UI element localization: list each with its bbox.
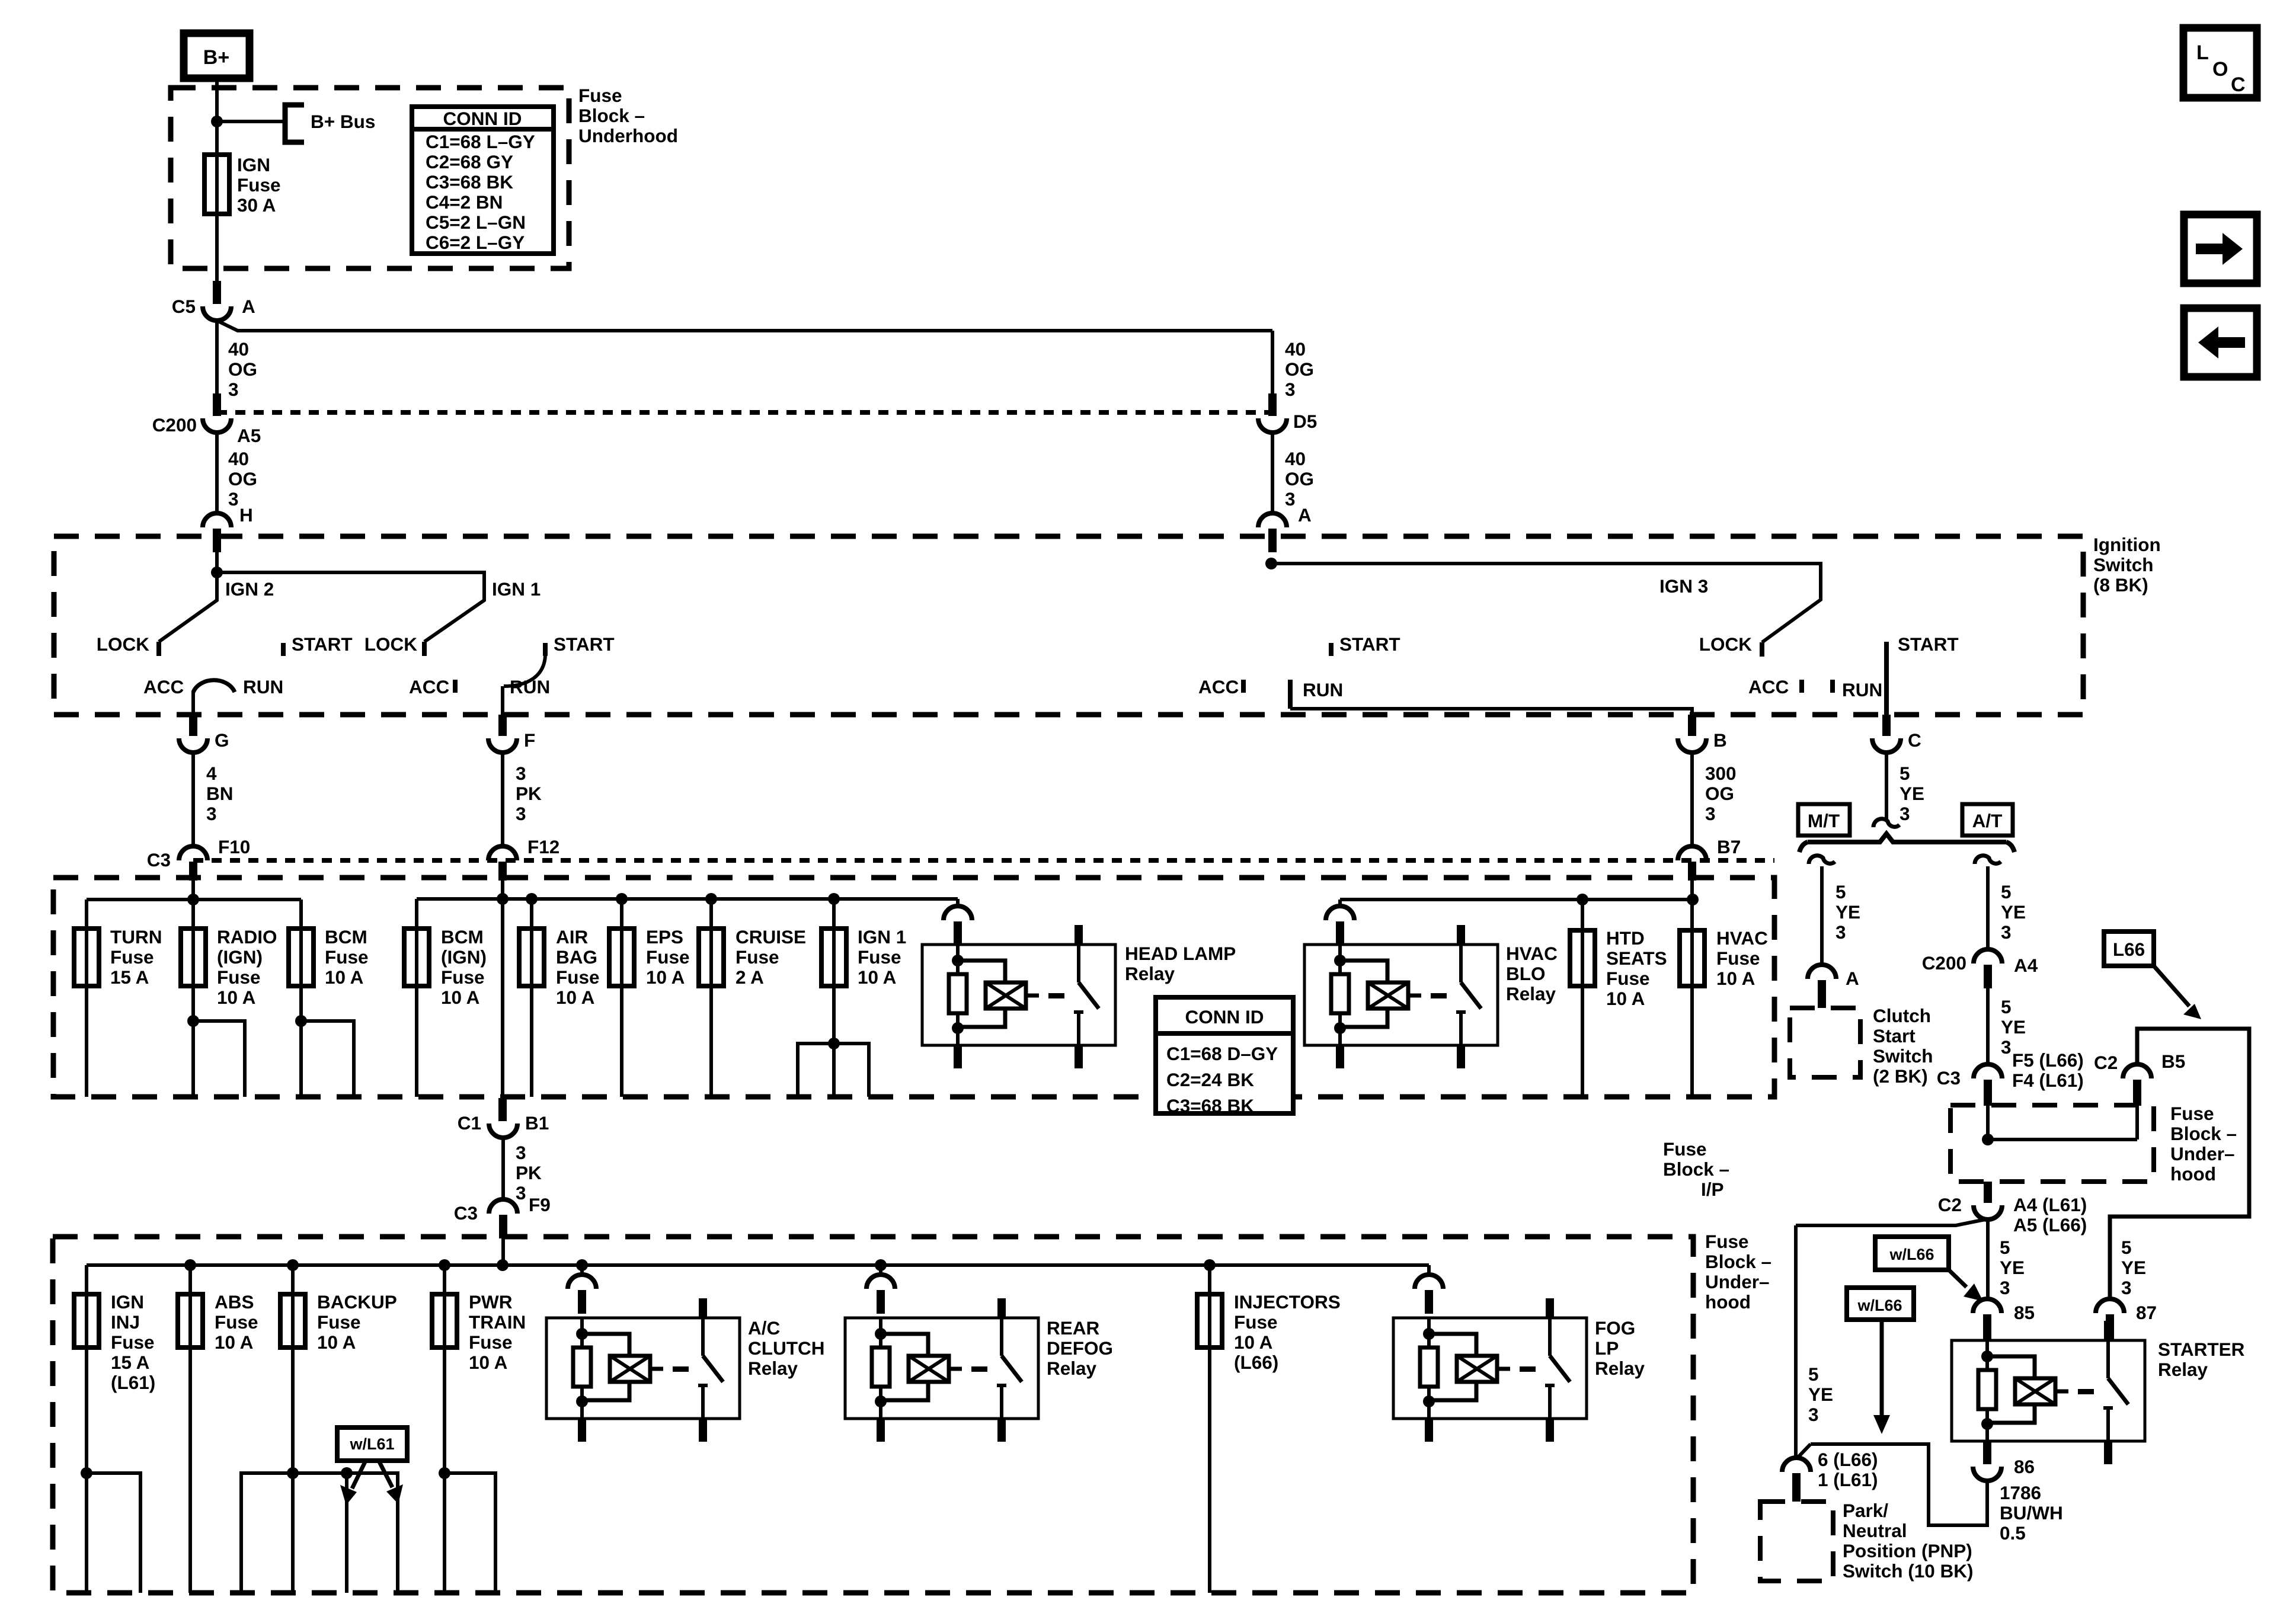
svg-text:C1: C1 (458, 1112, 481, 1134)
svg-text:15 A: 15 A (111, 1352, 149, 1373)
svg-text:AIR: AIR (556, 926, 589, 948)
svg-text:Relay: Relay (748, 1358, 798, 1379)
svg-text:LOCK: LOCK (364, 633, 417, 655)
svg-text:HVAC: HVAC (1506, 943, 1558, 964)
svg-text:3: 3 (1285, 488, 1296, 510)
svg-text:STARTER: STARTER (2158, 1339, 2245, 1360)
svg-text:3: 3 (2121, 1277, 2132, 1298)
svg-text:15 A: 15 A (110, 966, 149, 988)
svg-text:CRUISE: CRUISE (736, 926, 806, 948)
svg-text:PK: PK (516, 1162, 542, 1183)
svg-text:Clutch: Clutch (1873, 1005, 1931, 1026)
svg-text:3: 3 (1808, 1404, 1819, 1425)
svg-text:C3: C3 (454, 1202, 478, 1224)
svg-text:10 A: 10 A (1606, 988, 1645, 1009)
svg-text:FOG: FOG (1595, 1317, 1635, 1339)
svg-text:Underhood: Underhood (578, 125, 678, 146)
svg-text:BU/WH: BU/WH (2000, 1502, 2063, 1523)
svg-text:10 A: 10 A (646, 966, 685, 988)
svg-text:SEATS: SEATS (1606, 948, 1667, 969)
svg-text:Relay: Relay (1506, 983, 1556, 1004)
svg-text:Fuse: Fuse (556, 966, 600, 988)
svg-text:ACC: ACC (1198, 676, 1239, 697)
svg-text:5: 5 (2001, 996, 2012, 1017)
svg-text:Block –: Block – (2170, 1123, 2237, 1144)
svg-text:C2: C2 (1938, 1194, 1962, 1215)
svg-text:G: G (215, 729, 229, 751)
svg-text:4: 4 (206, 763, 217, 784)
svg-text:C3: C3 (1937, 1067, 1961, 1089)
svg-text:5: 5 (1835, 881, 1846, 902)
svg-text:10 A: 10 A (217, 987, 255, 1008)
svg-text:10 A: 10 A (469, 1352, 507, 1373)
svg-text:Relay: Relay (1125, 963, 1175, 984)
svg-text:YE: YE (1808, 1384, 1833, 1405)
svg-text:C200: C200 (152, 414, 197, 436)
svg-text:40: 40 (1285, 338, 1306, 360)
svg-text:Switch: Switch (2093, 554, 2154, 575)
svg-text:5: 5 (1808, 1363, 1819, 1385)
svg-text:IGN 2: IGN 2 (225, 578, 274, 600)
svg-text:B+: B+ (203, 46, 229, 69)
svg-text:300: 300 (1705, 763, 1737, 784)
svg-text:3: 3 (1705, 803, 1716, 824)
svg-text:Park/: Park/ (1843, 1500, 1888, 1521)
svg-text:w/L66: w/L66 (1857, 1297, 1902, 1314)
svg-text:D5: D5 (1293, 411, 1317, 432)
svg-text:YE: YE (2000, 1257, 2025, 1278)
svg-text:Block –: Block – (578, 105, 645, 126)
svg-text:F5 (L66): F5 (L66) (2012, 1049, 2084, 1071)
svg-text:3: 3 (228, 488, 239, 510)
svg-text:F4 (L61): F4 (L61) (2012, 1070, 2084, 1091)
svg-text:3: 3 (2001, 1036, 2012, 1058)
svg-text:ABS: ABS (215, 1291, 254, 1313)
svg-text:Fuse: Fuse (1234, 1311, 1278, 1333)
svg-text:H: H (239, 504, 253, 526)
svg-text:Fuse: Fuse (578, 85, 622, 106)
svg-text:BCM: BCM (441, 926, 484, 948)
svg-text:A: A (1846, 968, 1859, 989)
svg-text:OG: OG (228, 359, 257, 380)
svg-text:Under–: Under– (2170, 1143, 2235, 1164)
svg-text:Start: Start (1873, 1025, 1916, 1046)
svg-text:TRAIN: TRAIN (469, 1311, 526, 1333)
svg-text:START: START (554, 633, 615, 655)
svg-text:10 A: 10 A (325, 966, 363, 988)
svg-text:IGN 1: IGN 1 (492, 578, 541, 600)
svg-text:Relay: Relay (1595, 1358, 1645, 1379)
svg-text:IGN 1: IGN 1 (858, 926, 906, 948)
svg-text:O: O (2212, 58, 2228, 81)
svg-text:IGN: IGN (111, 1291, 144, 1313)
svg-text:YE: YE (1900, 783, 1924, 804)
svg-text:Fuse: Fuse (858, 946, 901, 968)
svg-text:START: START (292, 633, 353, 655)
svg-text:Fuse: Fuse (237, 174, 281, 196)
svg-text:TURN: TURN (110, 926, 162, 948)
svg-text:Switch: Switch (1873, 1045, 1933, 1067)
svg-text:(8 BK): (8 BK) (2093, 574, 2148, 596)
svg-text:w/L61: w/L61 (349, 1435, 394, 1453)
svg-text:C2=24 BK: C2=24 BK (1166, 1069, 1254, 1090)
svg-text:Fuse: Fuse (469, 1331, 513, 1353)
svg-text:Fuse: Fuse (317, 1311, 361, 1333)
svg-text:L: L (2196, 41, 2209, 64)
svg-text:YE: YE (2121, 1257, 2146, 1278)
svg-text:3: 3 (2000, 1277, 2010, 1298)
svg-text:C: C (2231, 73, 2246, 96)
svg-text:Fuse: Fuse (2170, 1103, 2214, 1124)
svg-text:BAG: BAG (556, 946, 597, 968)
svg-text:RUN: RUN (1303, 679, 1343, 700)
svg-text:3: 3 (1900, 803, 1910, 824)
svg-text:C4=2 BN: C4=2 BN (426, 191, 503, 213)
svg-text:5: 5 (2000, 1237, 2010, 1258)
svg-text:w/L66: w/L66 (1889, 1246, 1934, 1263)
svg-text:RUN: RUN (1842, 679, 1882, 700)
svg-text:ACC: ACC (409, 676, 449, 697)
svg-text:RADIO: RADIO (217, 926, 277, 948)
svg-text:5: 5 (1900, 763, 1910, 784)
svg-text:BCM: BCM (325, 926, 367, 948)
svg-text:Relay: Relay (1047, 1358, 1097, 1379)
svg-text:BACKUP: BACKUP (317, 1291, 397, 1313)
svg-text:3: 3 (516, 1142, 526, 1163)
svg-text:OG: OG (228, 468, 257, 489)
svg-text:A: A (1298, 504, 1312, 526)
svg-text:ACC: ACC (1748, 676, 1789, 697)
svg-text:Fuse: Fuse (1716, 948, 1760, 969)
svg-text:Ignition: Ignition (2093, 534, 2161, 555)
svg-text:40: 40 (1285, 448, 1306, 469)
svg-text:C5: C5 (172, 296, 196, 317)
svg-text:Relay: Relay (2158, 1359, 2208, 1380)
svg-text:M/T: M/T (1808, 810, 1840, 831)
svg-text:87: 87 (2136, 1302, 2157, 1323)
svg-text:B1: B1 (525, 1112, 549, 1134)
svg-text:RUN: RUN (510, 676, 550, 697)
svg-text:HVAC: HVAC (1716, 927, 1768, 949)
svg-text:YE: YE (2001, 901, 2026, 923)
svg-text:C3=68 BK: C3=68 BK (1166, 1095, 1254, 1116)
svg-text:INJ: INJ (111, 1311, 140, 1333)
svg-text:30 A: 30 A (237, 194, 276, 216)
svg-text:BN: BN (206, 783, 234, 804)
svg-text:F: F (524, 729, 535, 751)
svg-text:OG: OG (1285, 468, 1314, 489)
svg-text:F9: F9 (529, 1194, 551, 1215)
svg-text:A5: A5 (237, 425, 261, 446)
svg-text:DEFOG: DEFOG (1047, 1337, 1113, 1359)
svg-text:10 A: 10 A (1716, 968, 1755, 989)
svg-text:10 A: 10 A (317, 1331, 356, 1353)
svg-text:Fuse: Fuse (111, 1331, 155, 1353)
svg-text:hood: hood (1705, 1291, 1751, 1313)
svg-text:3: 3 (2001, 921, 2012, 943)
svg-text:Block –: Block – (1705, 1251, 1771, 1272)
svg-text:F10: F10 (218, 836, 250, 857)
svg-text:Fuse: Fuse (646, 946, 690, 968)
svg-text:EPS: EPS (646, 926, 683, 948)
svg-text:0.5: 0.5 (2000, 1522, 2026, 1544)
svg-text:10 A: 10 A (215, 1331, 253, 1353)
svg-text:A/C: A/C (748, 1317, 780, 1339)
svg-text:Fuse: Fuse (110, 946, 154, 968)
svg-text:10 A: 10 A (1234, 1331, 1272, 1353)
svg-text:1786: 1786 (2000, 1482, 2041, 1503)
svg-text:Neutral: Neutral (1843, 1520, 1907, 1541)
svg-text:B7: B7 (1717, 836, 1741, 857)
svg-text:A: A (242, 296, 255, 317)
svg-text:CONN ID: CONN ID (443, 108, 522, 129)
svg-text:A/T: A/T (1972, 810, 2003, 831)
svg-text:40: 40 (228, 448, 249, 469)
svg-text:Switch (10 BK): Switch (10 BK) (1843, 1560, 1974, 1582)
svg-text:OG: OG (1285, 359, 1314, 380)
svg-text:CLUTCH: CLUTCH (748, 1337, 824, 1359)
svg-text:Fuse: Fuse (325, 946, 369, 968)
svg-text:C3: C3 (147, 849, 171, 870)
svg-text:5: 5 (2121, 1237, 2132, 1258)
svg-text:LP: LP (1595, 1337, 1619, 1359)
svg-text:(IGN): (IGN) (441, 946, 487, 968)
svg-text:C3=68 BK: C3=68 BK (426, 171, 513, 193)
svg-text:85: 85 (2014, 1302, 2035, 1323)
svg-text:HEAD LAMP: HEAD LAMP (1125, 943, 1236, 964)
svg-text:1 (L61): 1 (L61) (1818, 1469, 1878, 1490)
svg-text:START: START (1339, 633, 1400, 655)
svg-text:3: 3 (516, 1182, 526, 1204)
svg-text:C: C (1908, 729, 1921, 751)
svg-text:A4: A4 (2014, 955, 2038, 976)
svg-text:HTD: HTD (1606, 927, 1645, 949)
svg-text:ACC: ACC (143, 676, 184, 697)
svg-text:PWR: PWR (469, 1291, 513, 1313)
svg-text:(L66): (L66) (1234, 1352, 1278, 1373)
svg-text:C1=68 L–GY: C1=68 L–GY (426, 131, 535, 152)
svg-text:Under–: Under– (1705, 1271, 1770, 1292)
svg-text:40: 40 (228, 338, 249, 360)
svg-text:(IGN): (IGN) (217, 946, 263, 968)
svg-text:3: 3 (1285, 379, 1296, 400)
svg-text:3: 3 (516, 763, 526, 784)
svg-text:RUN: RUN (243, 676, 283, 697)
svg-text:Fuse: Fuse (215, 1311, 258, 1333)
svg-text:3: 3 (1835, 921, 1846, 943)
svg-text:A4 (L61): A4 (L61) (2013, 1194, 2087, 1215)
svg-text:10 A: 10 A (441, 987, 479, 1008)
svg-text:IGN 3: IGN 3 (1659, 575, 1708, 597)
svg-text:3: 3 (516, 803, 526, 824)
svg-text:C200: C200 (1922, 952, 1966, 974)
svg-text:Block –: Block – (1663, 1158, 1729, 1180)
svg-text:A5 (L66): A5 (L66) (2013, 1214, 2087, 1235)
svg-text:C2=68 GY: C2=68 GY (426, 151, 513, 172)
svg-text:10 A: 10 A (858, 966, 896, 988)
svg-text:C2: C2 (2094, 1052, 2118, 1073)
svg-text:CONN ID: CONN ID (1185, 1006, 1264, 1028)
svg-text:C1=68 D–GY: C1=68 D–GY (1166, 1043, 1278, 1064)
svg-text:LOCK: LOCK (1699, 633, 1752, 655)
svg-text:(2 BK): (2 BK) (1873, 1065, 1928, 1087)
svg-text:C6=2 L–GY: C6=2 L–GY (426, 232, 525, 253)
svg-text:REAR: REAR (1047, 1317, 1100, 1339)
svg-text:Fuse: Fuse (1705, 1231, 1749, 1252)
svg-text:6 (L66): 6 (L66) (1818, 1449, 1878, 1470)
svg-text:Fuse: Fuse (441, 966, 485, 988)
svg-text:3: 3 (228, 379, 239, 400)
svg-text:L66: L66 (2113, 939, 2145, 960)
svg-text:3: 3 (206, 803, 217, 824)
svg-text:2 A: 2 A (736, 966, 764, 988)
svg-text:hood: hood (2170, 1163, 2216, 1185)
svg-text:(L61): (L61) (111, 1372, 155, 1393)
svg-text:INJECTORS: INJECTORS (1234, 1291, 1341, 1313)
svg-text:Position (PNP): Position (PNP) (1843, 1540, 1972, 1561)
svg-text:86: 86 (2014, 1456, 2035, 1477)
svg-text:OG: OG (1705, 783, 1734, 804)
svg-text:C5=2 L–GN: C5=2 L–GN (426, 212, 526, 233)
svg-text:5: 5 (2001, 881, 2012, 902)
svg-text:10 A: 10 A (556, 987, 594, 1008)
svg-text:START: START (1898, 633, 1959, 655)
svg-text:B5: B5 (2161, 1051, 2185, 1072)
svg-text:B+ Bus: B+ Bus (311, 111, 375, 132)
svg-text:IGN: IGN (237, 154, 270, 175)
svg-text:PK: PK (516, 783, 542, 804)
svg-text:YE: YE (1835, 901, 1860, 923)
svg-text:Fuse: Fuse (217, 966, 261, 988)
svg-text:F12: F12 (527, 836, 559, 857)
svg-text:B: B (1713, 729, 1727, 751)
svg-text:Fuse: Fuse (1663, 1138, 1707, 1160)
svg-text:YE: YE (2001, 1016, 2026, 1038)
svg-text:Fuse: Fuse (1606, 968, 1650, 989)
svg-text:BLO: BLO (1506, 963, 1546, 984)
svg-text:I/P: I/P (1701, 1179, 1724, 1200)
svg-text:Fuse: Fuse (736, 946, 779, 968)
svg-text:LOCK: LOCK (97, 633, 149, 655)
